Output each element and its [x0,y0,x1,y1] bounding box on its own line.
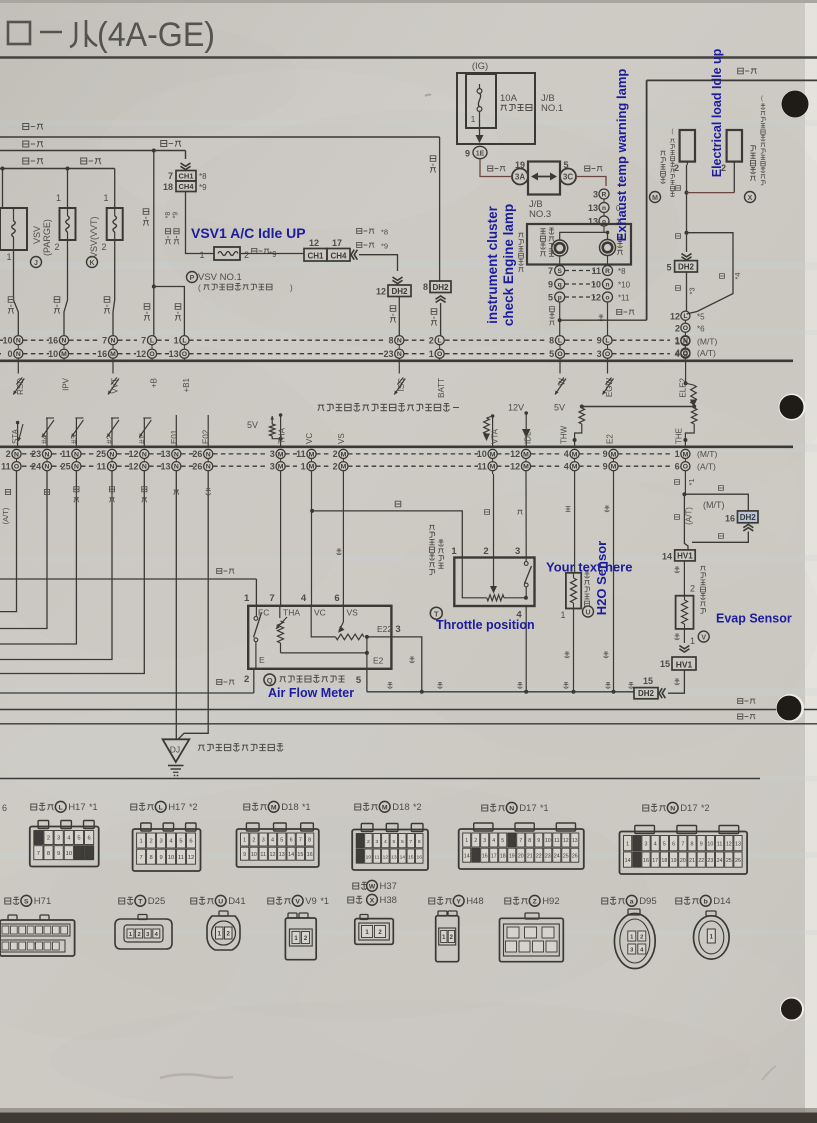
svg-text:19: 19 [671,858,677,864]
svg-text:16: 16 [643,858,649,864]
svg-text:H48: H48 [466,896,483,907]
svg-text:*9: *9 [381,242,388,251]
svg-text:N: N [206,451,211,458]
svg-text:5: 5 [548,293,553,303]
svg-text:3: 3 [270,461,275,471]
svg-text:17: 17 [491,853,497,859]
chevrons + DH2-5 [682,257,692,260]
svg-text:2: 2 [252,838,255,844]
svg-text:N: N [45,464,50,471]
svg-text:O: O [557,351,562,358]
svg-text:2: 2 [137,932,140,938]
svg-text:13: 13 [572,838,578,844]
svg-text:M: M [523,451,529,458]
svg-text:7: 7 [139,855,142,861]
svg-text:W: W [369,884,376,891]
svg-text:1: 1 [675,335,680,345]
outer J/B box [457,73,535,144]
svg-text:VC: VC [314,608,326,618]
svg-text:9: 9 [57,851,60,857]
AFM box [248,606,391,669]
svg-text:Exhaust temp warning lamp: Exhaust temp warning lamp [614,69,629,242]
THE col [684,471,686,494]
svg-text:BATT: BATT [437,378,446,398]
svg-text:*10: *10 [618,281,631,290]
svg-text:2: 2 [483,546,488,557]
svg-text:1E: 1E [476,150,485,157]
svg-text:1: 1 [429,349,434,359]
svg-text:20: 20 [518,853,524,859]
lower bus connector circles [12,449,21,458]
E2 pin5 wire down to brown bus [366,669,368,692]
svg-text:DH2: DH2 [678,262,695,271]
DH2 box 16 highlighted [738,511,759,523]
TPS box [454,558,534,607]
wire CH4 down to VSV NO.1 [186,192,208,254]
svg-text:N: N [174,464,179,471]
svg-text:1: 1 [174,335,179,345]
svg-text:2: 2 [244,674,249,685]
svg-text:M: M [611,451,617,458]
svg-text:16: 16 [725,514,735,524]
svg-text:15: 15 [297,852,303,858]
svg-text:3: 3 [57,836,60,842]
svg-text:5: 5 [666,263,671,273]
svg-text:16: 16 [97,349,107,359]
svg-text:2: 2 [640,935,643,941]
svg-text:H17: H17 [168,802,185,813]
svg-text:7: 7 [681,841,684,847]
svg-text:Q: Q [267,676,273,685]
svg-text:17: 17 [652,858,658,864]
svg-text:R: R [602,191,607,198]
wire +B down [153,151,155,336]
svg-text:15: 15 [643,676,653,686]
svg-text:12: 12 [128,461,138,471]
P circle + name [187,272,198,283]
svg-text:9: 9 [603,461,608,471]
svg-text:3: 3 [159,839,162,845]
svg-text:(M/T): (M/T) [703,500,725,510]
svg-text:IPV: IPV [62,377,71,391]
svg-text:2: 2 [54,242,59,252]
svg-text:L: L [683,313,687,320]
svg-text:+B: +B [150,378,159,388]
svg-text:5: 5 [549,349,554,359]
svg-text:N: N [142,464,147,471]
svg-text:2: 2 [429,335,434,345]
connector H48 body [438,911,447,916]
svg-text:NO.3: NO.3 [529,209,551,220]
svg-text:CH4: CH4 [330,251,347,260]
svg-text:9: 9 [603,449,608,459]
svg-text:12: 12 [128,449,138,459]
svg-text:H37: H37 [380,881,397,892]
svg-text:11: 11 [477,461,487,471]
svg-text:#3: #3 [70,435,79,444]
svg-text:1: 1 [199,250,204,260]
svg-text:M: M [652,195,658,202]
svg-text:O: O [437,351,442,358]
svg-text:): ) [290,284,293,293]
svg-text:(PARGE): (PARGE) [42,219,52,256]
svg-text:VTA: VTA [491,428,500,444]
J/B NO.3 box with arrows [528,162,560,195]
svg-text:(M/T): (M/T) [697,337,717,347]
svg-text:E01: E01 [170,429,179,444]
svg-text:3: 3 [483,838,486,844]
svg-text:14: 14 [400,854,406,860]
svg-text:11: 11 [1,461,11,471]
top wire 赤-黄 [647,79,817,81]
svg-text:14: 14 [288,852,294,858]
svg-text:7: 7 [299,838,302,844]
connector D14 body [706,911,716,916]
svg-text:9: 9 [537,838,540,844]
svg-text:N: N [111,338,116,345]
svg-text:1: 1 [471,114,476,124]
svg-text:DH2: DH2 [432,283,449,292]
svg-text:*2: *2 [413,802,422,812]
wire 1E to 3A [480,159,511,177]
svg-text:2: 2 [690,584,695,594]
svg-text:12: 12 [563,838,569,844]
svg-text:M: M [309,451,315,458]
svg-text:10A: 10A [500,93,518,104]
svg-text:13: 13 [588,203,598,213]
svg-text:VSV: VSV [32,226,42,244]
descending wires from lower bus [0,471,17,612]
ECU label エンジンコントロールコンピュータ [318,405,324,411]
svg-text:8: 8 [418,839,421,845]
svg-text:23: 23 [707,858,713,864]
loop back to HV1-14 [692,532,748,543]
svg-text:11: 11 [97,461,107,471]
svg-text:L: L [558,338,562,345]
svg-text:N: N [62,338,67,345]
connector H92 body [525,913,539,919]
svg-text:N: N [16,351,21,358]
svg-text:N: N [16,338,21,345]
svg-text:8: 8 [423,282,428,292]
svg-text:E: E [259,655,265,665]
svg-text:3: 3 [645,841,648,847]
svg-text:1: 1 [139,839,142,845]
svg-text:12: 12 [309,238,319,248]
svg-text:N: N [74,451,79,458]
svg-text:4: 4 [675,349,680,359]
svg-text:11: 11 [61,449,71,459]
svg-text:M: M [61,351,67,358]
svg-text:15: 15 [408,854,414,860]
svg-text:3A: 3A [515,173,525,182]
svg-text:1: 1 [56,193,61,203]
connector V9 label [268,898,274,904]
svg-text:M: M [341,451,347,458]
svg-text:R: R [605,268,610,275]
connector D95 body [628,909,640,915]
connector D25 label [119,898,125,904]
svg-text:25: 25 [61,461,71,471]
svg-text:16: 16 [417,854,423,860]
svg-text:10: 10 [168,855,174,861]
svg-text:12: 12 [188,855,194,861]
svg-text:16: 16 [48,335,58,345]
svg-text:5: 5 [663,841,666,847]
svg-text:23: 23 [545,853,551,859]
upper bus dashed lines [0,339,3,341]
connector D95 label [602,898,608,904]
svg-text:11: 11 [374,854,379,860]
svg-text:E22: E22 [377,624,392,634]
ECU top border [0,359,793,362]
svg-text:1: 1 [103,193,108,203]
svg-text:20: 20 [680,858,686,864]
svg-text:D25: D25 [148,896,165,907]
svg-text:THE: THE [675,428,684,444]
svg-text:21: 21 [689,858,695,864]
svg-text:X: X [748,195,753,202]
connector H37/H38 body [360,915,368,920]
svg-text:(: ( [198,284,201,293]
FC switch [255,606,257,617]
connector D14 label [676,898,682,904]
svg-text:8: 8 [149,855,152,861]
svg-text:11: 11 [178,855,184,861]
chevrons + HV1-15 [683,629,685,643]
svg-text:26: 26 [192,461,202,471]
svg-text:HV1: HV1 [676,659,693,669]
svg-text:1: 1 [675,449,680,459]
connector H17 *1 label [31,804,37,810]
svg-text:(: ( [761,96,763,102]
svg-text:2: 2 [367,839,370,845]
svg-text:26: 26 [572,853,578,859]
svg-text:Y: Y [456,899,461,906]
svg-text:3: 3 [593,190,598,200]
svg-text:N: N [670,806,675,813]
svg-text:N: N [509,806,514,813]
svg-text:*8: *8 [381,228,388,237]
svg-text:o: o [606,294,610,301]
svg-text:q: q [558,281,562,288]
svg-text:14: 14 [625,858,631,864]
svg-text:2: 2 [149,839,152,845]
fuse inner box [466,74,496,128]
svg-text:DH2: DH2 [740,513,757,522]
svg-text:M: M [278,451,284,458]
svg-text:CH4: CH4 [178,182,194,191]
connector H71 label [5,898,11,904]
svg-text:X: X [370,898,375,905]
svg-text:10: 10 [707,841,713,847]
svg-text:*5: *5 [697,312,705,321]
svg-text:Throttle position: Throttle position [436,618,535,632]
svg-text:*9: *9 [199,183,207,192]
svg-text:23: 23 [383,349,393,359]
svg-text:H38: H38 [380,895,397,906]
svg-text:3: 3 [395,624,400,635]
svg-text:DH2: DH2 [391,287,408,296]
svg-text:L: L [438,338,442,345]
svg-text:M: M [490,464,496,471]
svg-text:H92: H92 [542,896,559,907]
svg-text:V: V [295,899,300,906]
branch to DH2-16 M/T [684,494,748,511]
connector D17 *1 body [459,829,584,869]
svg-text:STA: STA [11,428,20,444]
wires below to bus [559,302,561,336]
THW col down [574,471,576,573]
svg-text:12: 12 [383,854,389,860]
S q p circles column [559,256,561,266]
svg-text:#1: #1 [138,435,147,444]
svg-text:*1: *1 [320,896,329,906]
VC col down to AFM [311,471,313,606]
svg-text:12V: 12V [508,403,524,413]
svg-text:D41: D41 [228,896,245,907]
svg-text:7: 7 [269,593,274,604]
ELE2 resistor to 5V rail [685,362,687,383]
svg-text:p: p [558,294,562,301]
connector D18 *2 label [355,804,361,810]
VC wire [311,606,335,637]
svg-text:9: 9 [243,852,246,858]
title ロール(4A-GE) [8,22,30,44]
svg-text:21: 21 [527,853,533,859]
svg-text:N: N [142,451,147,458]
svg-text:6: 6 [401,839,404,845]
fuse symbol [477,89,482,94]
FC pin2 wire down [253,669,255,693]
svg-text:(: ( [672,129,674,135]
svg-text:5V: 5V [247,420,258,430]
svg-text:9: 9 [597,335,602,345]
svg-text:VSV(VVT): VSV(VVT) [89,216,99,258]
connector H92 label [505,898,511,904]
svg-text:3C: 3C [563,173,573,182]
svg-text:*8: *8 [199,172,207,181]
svg-text:L: L [182,338,186,345]
svg-text:S: S [24,899,29,906]
svg-text:12: 12 [510,461,520,471]
wire RSD down to ECU [14,250,19,336]
svg-text:D17: D17 [680,803,697,814]
THE pull-up [691,408,697,424]
connector D41 body [219,911,228,916]
svg-text:5: 5 [179,839,182,845]
wire 黒-赤 full width [0,709,817,711]
connector D25 body [138,915,147,920]
svg-text:19: 19 [509,853,515,859]
lamp 2 exhaust temp [600,240,616,256]
wire right then down to DH2-12 [359,255,398,271]
punch hole 3 [776,694,804,722]
connector D18 *1 label [244,804,250,810]
svg-text:Electrical load Idle up: Electrical load Idle up [710,48,724,177]
svg-text:5: 5 [77,836,80,842]
svg-text:4: 4 [564,449,569,459]
svg-text:#4: #4 [41,435,50,444]
svg-text:*2: *2 [189,802,198,812]
connector D17 *2 label [643,805,649,811]
long line above connectors [0,778,760,780]
wire IPV down [64,240,68,336]
svg-text:2: 2 [47,836,50,842]
svg-text:4: 4 [271,838,274,844]
VTA wiper [492,471,494,474]
svg-text:M: M [572,464,578,471]
svg-text:D18: D18 [281,802,298,813]
svg-text:11: 11 [591,266,601,276]
svg-text:1: 1 [244,593,250,604]
svg-text:12: 12 [670,311,680,321]
left border wire down [646,80,648,320]
svg-text:10: 10 [2,335,12,345]
T circle + label [429,525,434,530]
svg-text:*1: *1 [89,802,98,812]
svg-text:9: 9 [700,841,703,847]
svg-text:*9: *9 [269,250,277,259]
svg-text:P: P [190,275,195,282]
svg-text:13: 13 [735,841,741,847]
svg-text:10: 10 [591,280,601,290]
svg-text:n: n [602,205,606,212]
svg-text:1: 1 [6,252,11,262]
svg-text:VSV1 A/C Idle UP: VSV1 A/C Idle UP [191,225,306,241]
svg-text:2: 2 [244,250,249,260]
svg-text:12: 12 [376,287,386,297]
svg-text:3: 3 [597,349,602,359]
svg-text:H2O Sensor: H2O Sensor [594,541,609,615]
svg-text:10: 10 [545,838,551,844]
svg-text:1: 1 [451,546,457,557]
svg-text:17: 17 [332,238,342,248]
connector D18 *1 body [237,829,319,867]
svg-text:24: 24 [717,858,723,864]
VS col [342,471,344,606]
IDL switch [525,471,527,562]
svg-text:O: O [605,351,610,358]
svg-text:7: 7 [548,266,553,276]
svg-text:3: 3 [262,838,265,844]
svg-text:O: O [149,351,154,358]
bottom dark scan edge [0,1112,817,1123]
wire down to CH1 [185,151,187,160]
E01 E02 stubs [175,415,177,447]
svg-text:VSV NO.1: VSV NO.1 [198,272,242,283]
svg-text:Z: Z [533,899,537,906]
vertical labels チェックエンジン [540,229,545,234]
wire from fuse down + arrow [479,120,481,137]
svg-text:8: 8 [528,838,531,844]
punch hole 1 [781,90,809,118]
茶 labels [388,683,393,689]
STA symbol [16,421,20,425]
THW pull-up [579,408,585,424]
svg-text:6: 6 [290,838,293,844]
svg-text:8: 8 [691,841,694,847]
svg-text:DJ: DJ [170,745,180,755]
svg-text:6: 6 [672,841,675,847]
svg-text:V9: V9 [305,896,317,907]
svg-text:14: 14 [662,552,672,562]
svg-text:*8: *8 [618,267,626,276]
緑-赤 wire to FC [0,578,256,580]
svg-text:NO.1: NO.1 [541,103,563,114]
svg-text:M: M [278,464,284,471]
svg-text:(A/T): (A/T) [685,507,694,525]
